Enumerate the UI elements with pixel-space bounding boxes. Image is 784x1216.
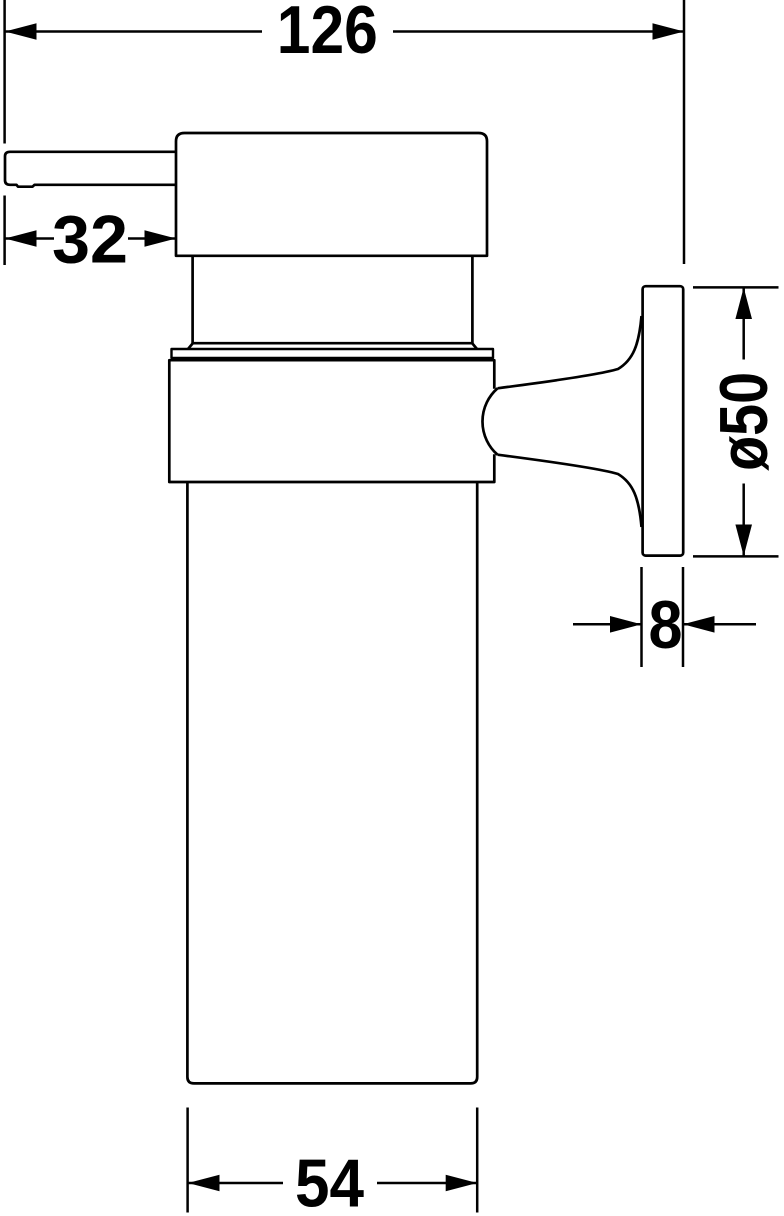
- bracket arm top curve: [498, 316, 642, 388]
- dim o50 line upper segment: [742, 288, 745, 360]
- dim 126 extension line left lower: [3, 196, 6, 266]
- neck flare left: [188, 344, 193, 350]
- glass body: [187, 482, 477, 1083]
- dim 54 extension right: [476, 1108, 479, 1213]
- dim o50 extension top: [693, 286, 779, 289]
- svg-text:54: 54: [295, 1146, 364, 1216]
- arrow 8 left (pointing right): [610, 616, 642, 633]
- neck right edge: [471, 256, 474, 344]
- arrow 8 right (pointing left): [683, 616, 715, 633]
- arrow 32 left: [5, 230, 37, 247]
- neck left edge: [191, 256, 194, 344]
- arrow 54 left: [188, 1175, 220, 1192]
- bracket arm bottom curve: [498, 455, 642, 527]
- svg-text:8: 8: [649, 587, 683, 663]
- neck flare right: [472, 344, 477, 350]
- arrow o50 bottom: [735, 525, 752, 557]
- dim 54 line left segment: [188, 1182, 283, 1185]
- dim 126 extension line left upper: [3, 0, 6, 144]
- arrow 126 right: [653, 23, 685, 40]
- svg-text:126: 126: [277, 0, 378, 68]
- pump head cap: [176, 133, 487, 256]
- dim 8 extension left: [640, 567, 643, 667]
- dim 32 line left segment: [5, 237, 54, 240]
- svg-text:ø50: ø50: [706, 372, 782, 471]
- dim 54 extension left: [186, 1108, 189, 1213]
- dim 32 line right segment: [128, 237, 176, 240]
- spout (pump nozzle tube): [5, 152, 176, 187]
- arrow 32 right: [145, 230, 177, 247]
- dim 8 line right segment: [683, 623, 756, 626]
- collar ring: [172, 349, 494, 358]
- dim 54 line right segment: [377, 1182, 477, 1185]
- bracket arm cope arc: [482, 388, 497, 454]
- arrow 126 left: [5, 23, 37, 40]
- svg-text:32: 32: [52, 202, 128, 278]
- arrow 54 right: [446, 1175, 478, 1192]
- dim 126 line right segment: [393, 30, 684, 33]
- dim o50 line lower segment: [742, 484, 745, 556]
- wall plate: [643, 286, 684, 555]
- dim 8 line left segment: [573, 623, 642, 626]
- dim 8 extension right: [682, 567, 685, 667]
- dim 126 line left segment: [5, 30, 262, 33]
- dim o50 extension bottom: [693, 555, 779, 558]
- holder block: [169, 360, 494, 482]
- dim 126 extension line right: [683, 0, 686, 264]
- arrow o50 top: [735, 288, 752, 320]
- neck inner step line: [193, 342, 472, 345]
